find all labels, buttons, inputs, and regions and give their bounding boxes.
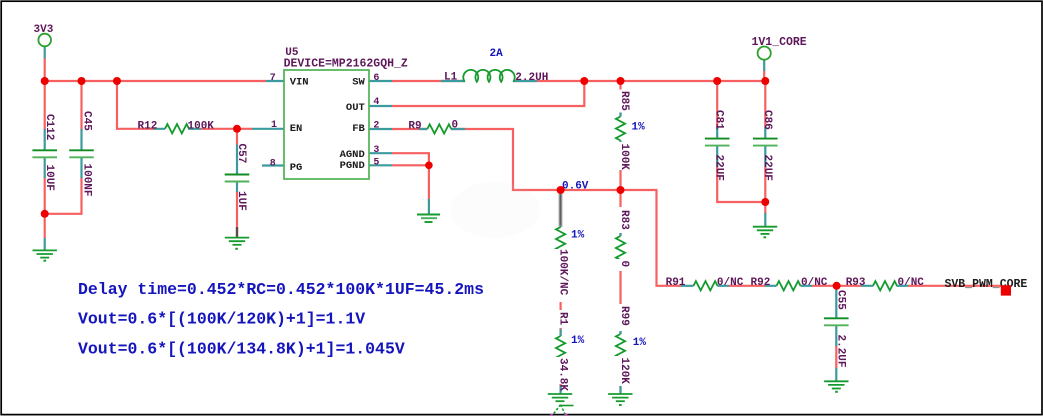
svg-text:0/NC: 0/NC	[898, 277, 925, 289]
svg-text:0: 0	[618, 261, 630, 268]
resistor R99	[615, 304, 646, 386]
node rail R85	[617, 77, 625, 85]
svg-text:C81: C81	[713, 110, 725, 130]
svg-text:Delay time=0.452*RC=0.452*100K: Delay time=0.452*RC=0.452*100K*1UF=45.2m…	[78, 280, 484, 299]
svg-text:R99: R99	[618, 306, 630, 326]
U5 pin 4 stub	[369, 105, 392, 107]
inductor L1	[444, 70, 548, 84]
wire R85 bottom	[619, 142, 621, 190]
capacitor C81	[705, 110, 730, 181]
wire R93 to port	[908, 285, 1002, 287]
U5 pin 5 stub	[369, 164, 392, 166]
C86 pins	[764, 127, 766, 168]
wire 0.6V branch down to R91 row	[657, 190, 682, 286]
svg-text:1UF: 1UF	[235, 191, 247, 211]
svg-text:7: 7	[270, 73, 276, 84]
power terminal 3V3 circle	[38, 34, 51, 47]
capacitor C86	[753, 110, 778, 181]
node EN	[233, 125, 241, 133]
svg-text:1V1_CORE: 1V1_CORE	[752, 36, 807, 49]
R9 pins	[419, 128, 465, 130]
wire R9 to 0.6V node	[451, 129, 658, 190]
svg-text:R9: R9	[408, 120, 421, 132]
U5 pin 1 stub	[252, 128, 284, 130]
wire SW to L1	[392, 80, 465, 82]
svg-text:0/NC: 0/NC	[801, 277, 828, 289]
wire R99 bottom	[619, 358, 621, 392]
svg-text:2: 2	[373, 121, 379, 132]
ground (C86)	[753, 227, 777, 234]
svg-text:100K: 100K	[618, 144, 630, 171]
svg-text:0.6V: 0.6V	[562, 181, 589, 193]
svg-text:AGND: AGND	[340, 149, 365, 161]
svg-text:0/NC: 0/NC	[717, 277, 744, 289]
svg-text:100K/NC: 100K/NC	[557, 249, 569, 296]
resistor 100K/NC (smudged refdes)	[554, 191, 585, 302]
svg-text:C45: C45	[81, 111, 93, 131]
svg-text:1%: 1%	[571, 230, 585, 242]
wire 100K/NC bottom	[559, 251, 561, 336]
node C112/C45 bottom	[41, 210, 49, 218]
C112 pins	[44, 129, 46, 178]
C81 pins	[716, 127, 718, 168]
wire 1V1_CORE drop	[763, 70, 765, 81]
node C55 top	[833, 282, 841, 290]
node rail C81	[713, 77, 721, 85]
wire 34.8K bottom	[559, 361, 561, 392]
svg-text:3: 3	[373, 145, 379, 156]
svg-text:Vout=0.6*[(100K/134.8K)+1]=1.0: Vout=0.6*[(100K/134.8K)+1]=1.045V	[78, 339, 405, 358]
R93 pins	[861, 285, 908, 287]
svg-text:4: 4	[373, 97, 379, 108]
100K/NC pins	[559, 224, 561, 256]
U5 pin 3 stub	[369, 152, 392, 154]
svg-text:0: 0	[452, 120, 459, 132]
C55 pins	[835, 287, 837, 346]
R1 34.8K pins	[559, 329, 561, 365]
svg-text:FB: FB	[352, 123, 365, 135]
R83 pins	[619, 231, 621, 264]
C45 pins	[80, 129, 82, 178]
pink specks	[550, 414, 553, 416]
svg-text:2A: 2A	[490, 48, 504, 60]
wire junction to R12	[117, 81, 154, 129]
svg-text:L1: L1	[444, 71, 458, 83]
svg-text:8: 8	[270, 158, 276, 169]
svg-text:2.2UH: 2.2UH	[515, 72, 548, 84]
ground (U5 AGND/PGND)	[417, 215, 440, 223]
svg-text:C57: C57	[235, 144, 247, 164]
ground (34.8K)	[548, 394, 572, 401]
svg-text:OUT: OUT	[346, 102, 365, 114]
svg-text:R12: R12	[138, 120, 158, 132]
1V1_CORE terminal pin	[763, 60, 765, 71]
left gnd pin	[44, 238, 46, 250]
svg-text:PG: PG	[290, 162, 303, 174]
formula text block	[78, 280, 484, 358]
svg-text:R1: R1	[557, 312, 569, 326]
wire FB to R9	[392, 128, 427, 130]
wire R83 top	[619, 190, 621, 236]
wire C81 bottom	[717, 167, 765, 203]
resistor R1 34.8K	[554, 310, 585, 391]
svg-text:R83: R83	[618, 210, 630, 230]
node 0.6V a	[557, 186, 565, 194]
C55 gnd pin	[835, 368, 837, 381]
node C81/C86 bottom	[761, 198, 769, 206]
wire R83-R99	[619, 264, 621, 334]
wire C112 top	[44, 81, 46, 131]
svg-text:2.2UF: 2.2UF	[834, 335, 846, 368]
svg-text:100K: 100K	[188, 120, 215, 132]
wire gnd drop left	[44, 214, 46, 239]
wire C57 bottom	[236, 191, 238, 228]
wire L1 to rail	[513, 80, 765, 82]
L1 pins	[441, 80, 537, 82]
svg-text:100NF: 100NF	[81, 164, 93, 197]
overlapping chassis symbol bottom edge	[552, 405, 573, 416]
node 3V3 rail j1	[41, 77, 49, 85]
ground (R99)	[608, 394, 632, 401]
svg-text:6: 6	[373, 73, 379, 84]
wire R12 to EN node	[201, 128, 252, 130]
wire C112 bottom	[44, 177, 46, 214]
capacitor C55	[824, 290, 849, 368]
svg-text:VIN: VIN	[290, 76, 309, 88]
wire C45 top	[80, 81, 82, 131]
svg-text:1%: 1%	[632, 122, 646, 134]
ground (C112/C45)	[33, 250, 57, 257]
svg-text:R92: R92	[751, 277, 771, 289]
resistor R93	[846, 277, 925, 291]
node SW/OUT join	[580, 77, 588, 85]
resistor R9	[408, 120, 458, 134]
svg-text:PGND: PGND	[340, 160, 365, 172]
dark smudged wire bit above C57 ground	[236, 227, 238, 238]
svg-text:22UF: 22UF	[713, 155, 725, 181]
svg-text:34.8K: 34.8K	[557, 358, 569, 391]
R91 pins	[681, 285, 729, 287]
U5 pin 8 stub	[262, 164, 284, 166]
svg-text:C112: C112	[43, 114, 55, 140]
ground (C55)	[824, 381, 848, 388]
capacitor C57	[225, 144, 250, 211]
svg-text:5: 5	[373, 157, 379, 168]
wire AGND	[392, 153, 429, 165]
svg-text:Vout=0.6*[(100K/120K)+1]=1.1V: Vout=0.6*[(100K/120K)+1]=1.1V	[78, 309, 365, 328]
svg-text:R85: R85	[618, 91, 630, 111]
svg-text:R91: R91	[666, 277, 686, 289]
34.8K gnd pin	[559, 385, 561, 394]
wire C86 top	[764, 81, 766, 128]
node 0.6V b	[617, 186, 625, 194]
U5 gnd pin	[428, 199, 430, 214]
U5 pin numbers	[270, 73, 380, 169]
resistor R85	[615, 90, 646, 171]
svg-text:1%: 1%	[571, 335, 585, 347]
svg-text:C86: C86	[761, 110, 773, 130]
ground (C57)	[225, 238, 249, 245]
wire C86 gnd drop	[764, 202, 766, 214]
svg-text:22UF: 22UF	[761, 155, 773, 181]
svg-text:3V3: 3V3	[34, 24, 54, 36]
R12 pins	[154, 128, 201, 130]
wire C55 lower	[835, 345, 837, 369]
wire OUT net	[392, 81, 584, 106]
power terminal 1V1_CORE circle	[758, 47, 771, 60]
wire R85 column	[619, 81, 621, 117]
R92 pins	[765, 285, 812, 287]
resistor R91	[666, 277, 744, 291]
U5 pin 2 stub	[369, 128, 392, 130]
U5 pin 6 stub	[369, 80, 392, 82]
resistor R12	[138, 120, 215, 133]
wire 3V3 drop	[44, 58, 46, 82]
C57 pins	[236, 145, 238, 193]
U5 pin 7 stub	[266, 80, 284, 82]
svg-text:1: 1	[271, 120, 277, 131]
svg-text:SW: SW	[352, 76, 365, 88]
wire C81 top	[716, 81, 718, 128]
node rail j3	[113, 77, 121, 85]
svg-text:R93: R93	[846, 277, 866, 289]
capacitor C112	[32, 114, 57, 191]
svg-text:DEVICE=MP2162GQH_Z: DEVICE=MP2162GQH_Z	[284, 58, 408, 71]
capacitor C45	[69, 111, 94, 197]
watermark ghost	[450, 182, 540, 238]
op IC U5 box	[284, 70, 369, 179]
svg-text:120K: 120K	[618, 358, 630, 385]
resistor R92	[751, 277, 828, 291]
C86 gnd pin	[764, 213, 766, 226]
svg-text:10UF: 10UF	[43, 165, 55, 191]
svg-text:SVB_PWM_CORE: SVB_PWM_CORE	[945, 278, 1028, 291]
R99 gnd pin	[619, 386, 621, 394]
resistor R83	[615, 207, 630, 271]
wire PGND	[392, 165, 429, 201]
wire R92-C55 node-R93	[812, 285, 861, 287]
node PGND join	[425, 162, 433, 170]
wire top-left rail	[45, 80, 266, 82]
wire C86 bottom	[764, 167, 766, 203]
U5 pin names	[290, 76, 366, 174]
svg-text:EN: EN	[290, 123, 303, 135]
R99 pins	[619, 326, 621, 364]
svg-text:C55: C55	[834, 290, 846, 310]
wire C57 top	[236, 129, 238, 146]
node rail j2	[78, 77, 86, 85]
wire R91-R92	[729, 285, 765, 287]
3V3 terminal pin	[44, 47, 46, 59]
svg-text:1%: 1%	[633, 337, 647, 349]
R85 pins	[619, 111, 621, 150]
node rail C86	[761, 77, 769, 85]
wire C45 bottom to junction	[45, 177, 82, 214]
